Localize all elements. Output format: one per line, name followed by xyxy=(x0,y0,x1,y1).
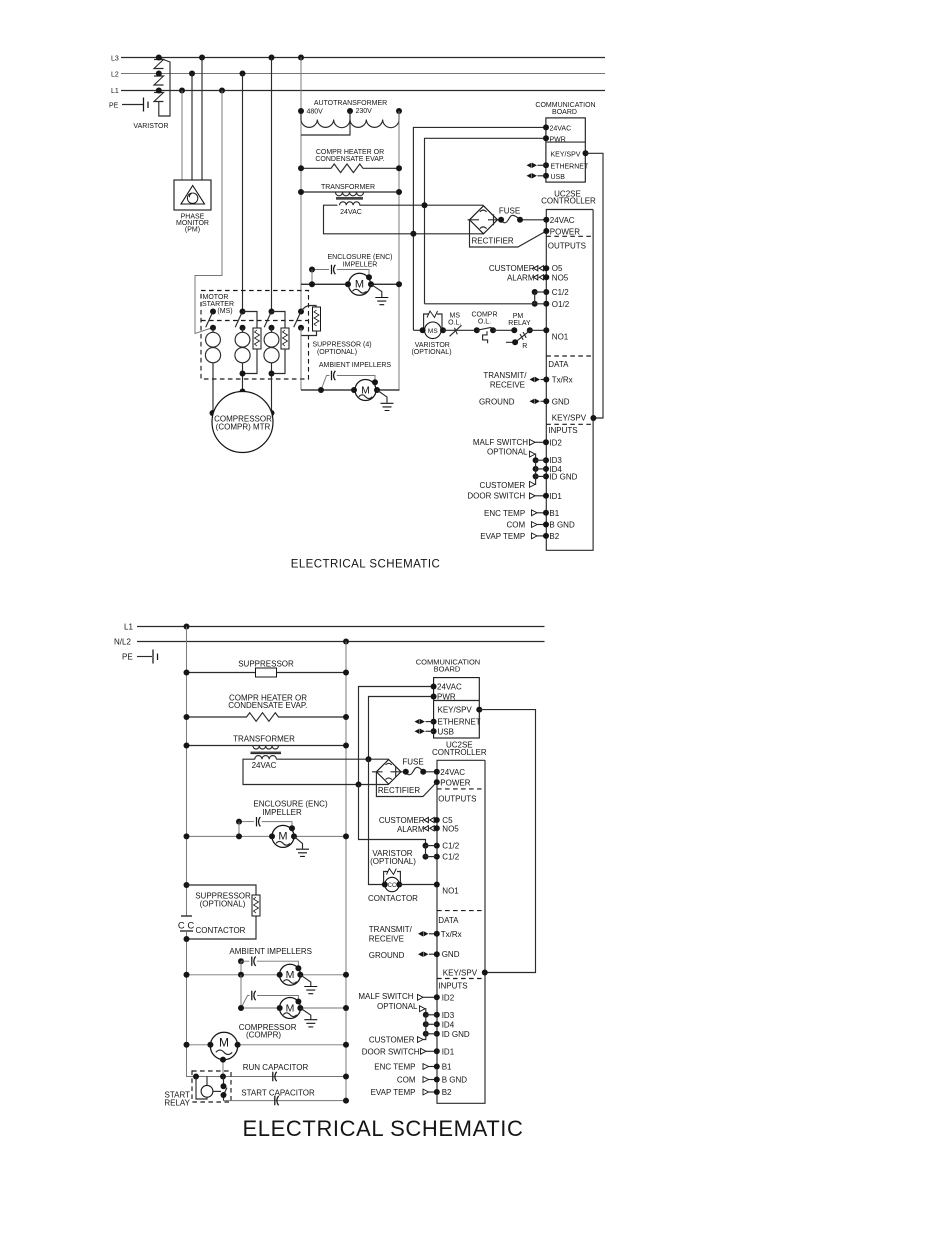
PE ground electrode xyxy=(153,650,158,664)
CC suppressor optional box xyxy=(184,882,257,942)
controller 24VAC pin xyxy=(543,217,549,223)
node L1 to motor starter xyxy=(219,88,225,94)
enc impeller capacitor branch xyxy=(312,269,329,271)
rectifier output path to POWER xyxy=(470,220,547,247)
svg-text:ID GND: ID GND xyxy=(442,1030,470,1039)
enc impeller stub xyxy=(238,822,240,837)
rail L3 wire xyxy=(121,57,605,59)
svg-text:DOOR SWITCH: DOOR SWITCH xyxy=(362,1048,420,1057)
wire PM relay to NO1 xyxy=(530,329,547,331)
svg-text:L1: L1 xyxy=(124,623,133,632)
svg-text:CONDENSATE EVAP.: CONDENSATE EVAP. xyxy=(228,701,307,710)
rail L1 wire xyxy=(121,90,605,92)
MS contact 1 xyxy=(206,309,216,331)
svg-text:B GND: B GND xyxy=(442,1076,468,1085)
controller POWER pin xyxy=(543,228,549,234)
wire L1 down to MS contact 1 xyxy=(195,91,222,334)
phase monitor triangle symbol xyxy=(181,186,205,205)
svg-text:CC: CC xyxy=(388,883,397,889)
ambient branch 1 wires xyxy=(241,961,298,968)
svg-text:RUN CAPACITOR: RUN CAPACITOR xyxy=(243,1063,309,1072)
suppressor S3 hook top xyxy=(272,312,286,329)
C1/2 feed wire xyxy=(359,785,426,846)
svg-text:Tx/Rx: Tx/Rx xyxy=(441,930,462,939)
svg-text:CONDENSATE EVAP.: CONDENSATE EVAP. xyxy=(315,156,384,163)
ID2 input xyxy=(418,994,424,1000)
ambient branch 1 stub xyxy=(240,961,242,975)
svg-text:OUTPUTS: OUTPUTS xyxy=(548,242,586,251)
ambient capacitor xyxy=(332,371,336,380)
MS linkage dashed line xyxy=(201,320,309,322)
ambient 2 ground stub xyxy=(300,1008,311,1019)
svg-text:STARTER: STARTER xyxy=(202,301,234,308)
svg-text:ELECTRICAL SCHEMATIC: ELECTRICAL SCHEMATIC xyxy=(243,1116,524,1141)
transformer primary left dot xyxy=(298,189,304,195)
CC coil dots xyxy=(382,882,388,888)
ID1 input xyxy=(421,1048,427,1054)
svg-text:TRANSFORMER: TRANSFORMER xyxy=(321,184,375,191)
C1/2 O1/2 bracket xyxy=(534,292,536,304)
node L1 to phase monitor xyxy=(179,88,185,94)
svg-text:GROUND: GROUND xyxy=(369,951,405,960)
svg-text:CUSTOMER: CUSTOMER xyxy=(369,1036,415,1045)
svg-text:B1: B1 xyxy=(549,509,559,518)
svg-text:(COMPR) MTR: (COMPR) MTR xyxy=(216,423,271,432)
svg-text:COMPR: COMPR xyxy=(471,311,497,318)
svg-text:M: M xyxy=(219,1036,229,1050)
MS contact 4 xyxy=(294,309,304,331)
ID3 row xyxy=(533,457,549,463)
svg-text:O5: O5 xyxy=(552,264,563,273)
GND arrows xyxy=(418,952,428,957)
NO1 wire left xyxy=(413,329,422,331)
svg-text:AUTOTRANSFORMER: AUTOTRANSFORMER xyxy=(314,100,387,107)
svg-text:EVAP TEMP: EVAP TEMP xyxy=(371,1088,416,1097)
svg-text:L1: L1 xyxy=(111,88,119,95)
ambient 1 ground stub xyxy=(300,975,311,986)
varistor VAR1 zigzags xyxy=(154,60,164,102)
C1/2 bracket xyxy=(425,846,427,857)
TxRx pin xyxy=(543,377,549,383)
PM relay contact xyxy=(506,327,533,350)
svg-text:ID2: ID2 xyxy=(442,993,455,1002)
svg-text:SUPPRESSOR (4): SUPPRESSOR (4) xyxy=(312,342,371,349)
rectifier output path to POWER xyxy=(376,772,436,797)
transformer secondary coil xyxy=(255,756,277,760)
rectifier bridge diamond xyxy=(372,760,401,785)
C5 pin xyxy=(424,817,434,822)
GND pin xyxy=(434,951,440,957)
svg-text:(PM): (PM) xyxy=(185,227,200,234)
svg-text:ENC TEMP: ENC TEMP xyxy=(374,1063,415,1072)
start relay right lead xyxy=(213,1090,221,1092)
svg-text:PE: PE xyxy=(109,103,119,110)
svg-text:ID3: ID3 xyxy=(549,456,562,465)
ambient wire1-wire2 link xyxy=(240,975,242,1008)
comm PWR pin xyxy=(543,135,549,141)
varistor bracket wire xyxy=(159,59,170,117)
fuse F1 xyxy=(498,215,547,223)
svg-text:230V: 230V xyxy=(356,108,373,115)
ID4 row xyxy=(423,1021,440,1027)
suppressor S2 hook top xyxy=(243,312,258,329)
B1 input xyxy=(532,510,538,516)
svg-text:BOARD: BOARD xyxy=(552,109,577,116)
svg-text:(OPTIONAL): (OPTIONAL) xyxy=(370,857,416,866)
compressor COMPR MTR circle xyxy=(212,392,273,453)
autotransformer 230V tap dot xyxy=(347,108,353,114)
svg-text:(OPTIONAL): (OPTIONAL) xyxy=(411,349,451,356)
svg-text:24VAC: 24VAC xyxy=(550,216,575,225)
compressor dots xyxy=(184,1042,190,1048)
compressor wires xyxy=(187,1044,347,1046)
PE wire xyxy=(137,656,152,658)
comm 24VAC pin xyxy=(431,684,437,690)
svg-text:ETHERNET: ETHERNET xyxy=(438,718,481,727)
secondary right lead xyxy=(276,758,388,760)
node L2 to MS contact 2 xyxy=(240,71,246,77)
outputs dashed divider xyxy=(437,788,485,790)
junction rectifier bus xyxy=(410,231,416,237)
ambient branch 2 blade xyxy=(241,996,250,1009)
B2 input xyxy=(423,1089,429,1095)
B1 input xyxy=(423,1064,429,1070)
transformer primary coil xyxy=(253,746,279,749)
transformer core xyxy=(251,752,282,753)
svg-text:O.L.: O.L. xyxy=(478,318,491,325)
phase monitor PM box xyxy=(174,180,211,210)
secondary left lead xyxy=(324,205,484,234)
svg-text:KEY/SPV: KEY/SPV xyxy=(551,151,581,158)
compressor motor xyxy=(210,1032,237,1059)
wire L3 to PM xyxy=(201,58,203,181)
svg-text:N/L2: N/L2 xyxy=(114,638,131,647)
svg-text:ID3: ID3 xyxy=(442,1011,455,1020)
wire L2 down to MS contact 2 xyxy=(242,74,244,312)
svg-text:24VAC: 24VAC xyxy=(340,209,362,216)
N/L2 rail junction dot xyxy=(343,639,349,645)
TxRx pin xyxy=(434,931,440,937)
ambient branch wire xyxy=(337,376,375,383)
svg-text:NO1: NO1 xyxy=(552,332,569,341)
ambient branch 1 stub dot xyxy=(238,958,244,964)
C1/2 pin row xyxy=(532,289,550,295)
suppressor dots xyxy=(184,670,190,676)
ID1 input xyxy=(530,493,536,499)
svg-text:MOTOR: MOTOR xyxy=(203,294,229,301)
svg-text:RELAY: RELAY xyxy=(508,320,531,327)
ambient dots xyxy=(318,387,324,393)
comm divider xyxy=(434,700,480,702)
ambient main wire xyxy=(301,389,400,391)
wire 230V bus down to ambient xyxy=(300,328,302,390)
autotransformer 480V terminal dot xyxy=(298,108,304,114)
wire L2 to PM xyxy=(191,74,193,181)
svg-text:CUSTOMER: CUSTOMER xyxy=(379,816,425,825)
transformer primary right dot xyxy=(396,189,402,195)
NO5 pin xyxy=(533,275,543,280)
enc impeller branch stub xyxy=(311,270,313,285)
start capacitor dot xyxy=(343,1098,349,1104)
svg-text:C1/2: C1/2 xyxy=(552,288,569,297)
ID GND row xyxy=(423,1031,440,1037)
node L3 to phase monitor xyxy=(199,55,205,61)
svg-text:CONTROLLER: CONTROLLER xyxy=(541,197,596,206)
svg-text:RELAY: RELAY xyxy=(164,1099,190,1108)
svg-text:R: R xyxy=(522,343,527,350)
svg-text:MALF SWITCH: MALF SWITCH xyxy=(473,438,528,447)
suppressor S3 hook bottom xyxy=(272,349,286,374)
ethernet arrows xyxy=(415,719,425,724)
comm KEY/SPV wire to controller xyxy=(586,153,604,418)
suppressor S2 join dot xyxy=(240,371,246,377)
GND arrows xyxy=(530,399,540,404)
enc impeller motor top dot xyxy=(366,274,372,280)
CC coil circle xyxy=(385,877,399,891)
svg-text:L3: L3 xyxy=(111,56,119,63)
data dashed divider xyxy=(546,355,593,357)
suppressor wire xyxy=(187,672,347,674)
svg-text:ALARM: ALARM xyxy=(507,273,535,282)
ID2 input xyxy=(530,439,536,445)
transformer dots xyxy=(184,743,190,749)
compressor bottom lead xyxy=(222,1060,224,1077)
svg-text:TRANSFORMER: TRANSFORMER xyxy=(233,734,295,743)
ambient branch 1 capacitor xyxy=(252,957,256,966)
svg-text:RECTIFIER: RECTIFIER xyxy=(378,786,420,795)
svg-text:USB: USB xyxy=(551,174,566,181)
transformer primary wire xyxy=(301,191,399,193)
enc impeller ground stub xyxy=(371,284,382,297)
svg-text:24VAC: 24VAC xyxy=(437,683,462,692)
svg-text:B2: B2 xyxy=(442,1088,452,1097)
svg-text:GND: GND xyxy=(552,397,570,406)
wire right bus 230V xyxy=(398,111,400,390)
svg-text:CONTACTOR: CONTACTOR xyxy=(196,926,246,935)
svg-text:DOOR SWITCH: DOOR SWITCH xyxy=(467,492,525,501)
ID bracket xyxy=(535,460,537,476)
svg-text:COM: COM xyxy=(507,521,526,530)
inputs dashed divider xyxy=(546,423,593,425)
ID GND row xyxy=(533,473,549,479)
rectifier bridge diamond xyxy=(468,206,500,234)
comm ETHERNET pin xyxy=(431,719,437,725)
NO1 pin xyxy=(434,882,440,888)
motor starter dashed box xyxy=(201,291,309,380)
MS overload 1 xyxy=(212,328,214,413)
O1/2 pin row xyxy=(425,301,550,307)
rail L2 wire xyxy=(121,73,605,75)
ambient 2 ground xyxy=(304,1020,317,1027)
ID3 row xyxy=(423,1012,440,1018)
MS coil circle xyxy=(425,322,442,339)
comm 24VAC pin xyxy=(543,124,549,130)
wire L1 to PM xyxy=(181,91,183,181)
svg-text:L2: L2 xyxy=(111,72,119,79)
svg-text:CUSTOMER: CUSTOMER xyxy=(489,264,535,273)
svg-text:ENCLOSURE (ENC): ENCLOSURE (ENC) xyxy=(328,254,393,261)
usb arrows xyxy=(415,729,425,734)
svg-text:C1/2: C1/2 xyxy=(442,842,459,851)
left feeder wire lower xyxy=(187,931,347,1077)
comm PWR pin xyxy=(431,694,437,700)
varistor junction dot L3 xyxy=(156,55,162,61)
communication board box xyxy=(434,678,480,738)
outputs dashed divider xyxy=(546,235,593,237)
heater resistor xyxy=(301,164,399,173)
svg-text:MS: MS xyxy=(428,328,438,335)
svg-text:B2: B2 xyxy=(549,532,559,541)
svg-text:OUTPUTS: OUTPUTS xyxy=(438,795,476,804)
enc impeller branch wire to motor xyxy=(337,270,369,278)
enc impeller wire dots xyxy=(309,281,315,287)
enc impeller main wire xyxy=(301,283,399,285)
varistor junction dot L2 xyxy=(156,71,162,77)
MS coil varistor xyxy=(424,311,442,330)
svg-text:O1/2: O1/2 xyxy=(552,300,570,309)
svg-text:FUSE: FUSE xyxy=(499,207,520,216)
MS overload 3 xyxy=(271,328,273,413)
svg-text:COM: COM xyxy=(397,1076,416,1085)
wire MS coil to OL xyxy=(443,329,477,331)
svg-text:AMBIENT IMPELLERS: AMBIENT IMPELLERS xyxy=(229,947,312,956)
svg-text:NO5: NO5 xyxy=(552,273,569,282)
comm 24VAC wire xyxy=(359,687,434,785)
svg-text:PE: PE xyxy=(122,653,133,662)
autotransformer right terminal dot xyxy=(396,108,402,114)
suppressor S3 join dot xyxy=(269,371,275,377)
svg-text:SUPPRESSOR: SUPPRESSOR xyxy=(238,660,294,669)
start capacitor xyxy=(275,1096,279,1105)
PE ground electrode xyxy=(144,98,149,112)
junction PWR secondary xyxy=(422,202,428,208)
svg-text:(MS): (MS) xyxy=(217,308,232,315)
heater resistor wire xyxy=(187,713,347,722)
node L2 to phase monitor xyxy=(189,71,195,77)
KEY/SPV pin dot xyxy=(590,415,596,421)
svg-text:POWER: POWER xyxy=(440,779,470,788)
MS contact 2 xyxy=(235,309,245,331)
wire L3 down autotransformer 480V and to contact 4 xyxy=(300,58,302,312)
MS OL contact xyxy=(450,325,462,336)
svg-text:(OPTIONAL): (OPTIONAL) xyxy=(200,900,246,909)
controller POWER pin xyxy=(434,779,440,785)
comm PWR wire xyxy=(425,138,547,303)
svg-text:PWR: PWR xyxy=(550,136,566,143)
optional wire xyxy=(530,451,536,457)
transformer primary coil xyxy=(336,192,364,196)
svg-text:CUSTOMER: CUSTOMER xyxy=(480,481,526,490)
svg-text:USB: USB xyxy=(438,727,454,736)
controller 24VAC pin xyxy=(434,769,440,775)
svg-text:RECEIVE: RECEIVE xyxy=(490,380,525,389)
svg-text:C1/2: C1/2 xyxy=(442,853,459,862)
svg-text:GROUND: GROUND xyxy=(479,397,515,406)
ambient ground xyxy=(381,403,394,410)
enc impeller capacitor xyxy=(332,265,336,274)
start relay dashed box xyxy=(192,1071,231,1102)
comm board divider xyxy=(546,141,585,143)
NO1 pin xyxy=(543,327,549,333)
svg-text:KEY/SPV: KEY/SPV xyxy=(438,706,473,715)
enc impeller motor xyxy=(272,825,294,847)
ID bracket xyxy=(425,1015,427,1034)
GND pin xyxy=(543,398,549,404)
controller box xyxy=(437,760,485,1103)
ambient wire 1 xyxy=(187,974,347,976)
svg-text:(COMPR): (COMPR) xyxy=(246,1030,281,1039)
run capacitor wire dots xyxy=(193,1074,199,1080)
NO5 pin xyxy=(424,826,434,831)
enc impeller branch dot xyxy=(236,819,242,825)
suppressor S2 box xyxy=(253,328,261,349)
rail N/L2 wire xyxy=(137,641,545,643)
autotransformer coil xyxy=(301,111,399,120)
svg-text:24VAC: 24VAC xyxy=(550,125,572,132)
MS overload 2 xyxy=(242,328,244,392)
svg-text:ID4: ID4 xyxy=(442,1020,455,1029)
svg-text:VARISTOR: VARISTOR xyxy=(133,123,168,130)
svg-text:DATA: DATA xyxy=(548,360,569,369)
O5 pin xyxy=(533,266,543,271)
transformer primary wire xyxy=(187,745,347,747)
suppressor box xyxy=(256,668,277,677)
comm USB pin xyxy=(431,728,437,734)
ambient ground stub xyxy=(377,390,387,403)
B2 input xyxy=(532,533,538,539)
secondary right lead xyxy=(360,204,484,206)
svg-text:OPTIONAL: OPTIONAL xyxy=(377,1002,418,1011)
start capacitor wire xyxy=(223,1100,346,1102)
suppressor S2 hook bottom xyxy=(243,349,258,374)
start relay left lead xyxy=(196,1077,207,1100)
ambient motor circle xyxy=(355,380,376,401)
TxRx arrows xyxy=(418,931,428,936)
ambient branch 2 wire xyxy=(257,996,298,1002)
C1/2 row A xyxy=(423,843,440,849)
enc impeller branch dot xyxy=(309,267,315,273)
compressor left dot xyxy=(210,410,216,416)
suppressor S4 box xyxy=(313,307,321,331)
svg-text:C C: C C xyxy=(178,921,195,932)
svg-text:ID GND: ID GND xyxy=(549,472,577,481)
enc impeller capacitor xyxy=(257,817,261,826)
suppressor S4 hook top xyxy=(301,306,316,312)
MS contact 3 xyxy=(264,309,274,331)
suppressor S4 hook bottom xyxy=(301,331,317,336)
inputs dashed divider xyxy=(437,978,485,980)
left feeder wire upper xyxy=(186,627,188,917)
svg-text:NO1: NO1 xyxy=(442,887,459,896)
svg-text:B1: B1 xyxy=(442,1063,452,1072)
fuse F2 xyxy=(401,767,437,775)
enc impeller branch xyxy=(239,821,254,823)
ambient branch blade xyxy=(321,376,330,391)
comm ETHERNET pin xyxy=(543,162,549,168)
comm 24VAC wire xyxy=(413,127,546,330)
svg-text:480V: 480V xyxy=(307,109,324,116)
svg-text:TRANSMIT/: TRANSMIT/ xyxy=(483,371,527,380)
phase monitor circle symbol xyxy=(187,193,197,203)
transformer secondary coil xyxy=(340,202,360,205)
transformer core xyxy=(336,198,363,199)
enc impeller ground xyxy=(375,298,388,305)
optional wire xyxy=(420,1006,426,1012)
rail L1 wire xyxy=(137,626,545,628)
customer wire xyxy=(530,482,536,488)
svg-text:24VAC: 24VAC xyxy=(252,761,277,770)
svg-text:KEY/SPV: KEY/SPV xyxy=(443,969,478,978)
